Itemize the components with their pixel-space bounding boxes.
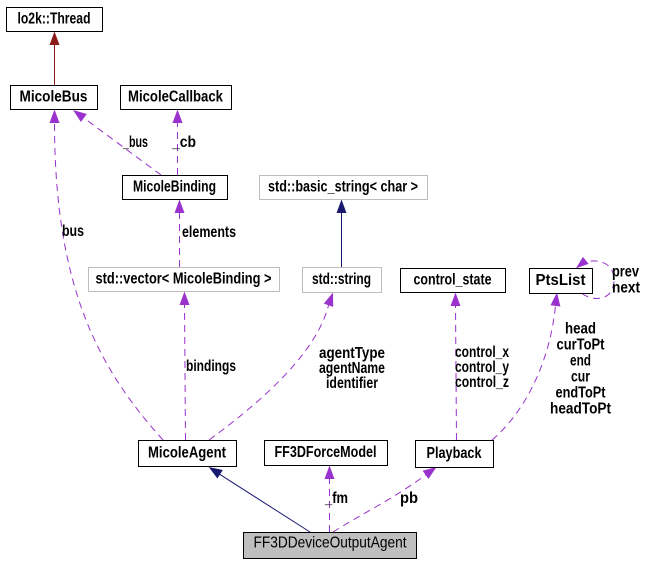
svg-text:std::string: std::string [312, 271, 371, 288]
inheritance edge MicoleBus to lo2k::Thread (protected, solid dark red) [50, 32, 60, 86]
svg-text:headToPt: headToPt [550, 401, 611, 418]
svg-text:_bus: _bus [122, 134, 148, 151]
svg-text:end: end [570, 353, 591, 370]
svg-text:FF3DForceModel: FF3DForceModel [275, 444, 377, 461]
usage edge pb : FF3DDeviceOutputAgent to Playback (dashed purple curve) [333, 467, 437, 532]
svg-text:_fm: _fm [324, 490, 348, 507]
class node PtsList [530, 269, 593, 294]
svg-text:prev: prev [612, 264, 639, 281]
class node control_state [401, 269, 506, 293]
svg-text:MicoleAgent: MicoleAgent [148, 445, 226, 462]
usage edge _fm : FF3DDeviceOutputAgent to FF3DForceModel (dashed purple) [324, 466, 348, 533]
svg-text:std::vector< MicoleBinding >: std::vector< MicoleBinding > [96, 271, 272, 288]
class node MicoleAgent [139, 441, 237, 467]
class node std::vector< MicoleBinding > [89, 268, 280, 292]
svg-text:elements: elements [182, 224, 236, 241]
usage edge _bus : MicoleBinding to MicoleBus (dashed purple) [73, 110, 161, 175]
svg-text:std::basic_string< char >: std::basic_string< char > [268, 179, 418, 196]
svg-text:MicoleBus: MicoleBus [20, 89, 88, 106]
class node std::string [303, 268, 382, 293]
usage edge agentType/agentName/identifier : MicoleAgent to std::string (dashed purple curve) [209, 293, 385, 441]
svg-text:bus: bus [62, 223, 84, 240]
inheritance edge std::string to std::basic_string< char > (public, solid dark blue) [337, 200, 347, 268]
usage edge head/curToPt/end/cur/endToPt/headToPt : Playback to PtsList (dashed purple curve) [492, 293, 611, 441]
svg-text:lo2k::Thread: lo2k::Thread [18, 11, 91, 28]
class node FF3DForceModel [265, 441, 388, 466]
svg-text:head: head [565, 321, 596, 338]
svg-text:endToPt: endToPt [556, 385, 606, 402]
svg-text:MicoleCallback: MicoleCallback [128, 89, 223, 106]
svg-text:identifier: identifier [326, 375, 378, 392]
class node MicoleCallback [121, 86, 232, 110]
class node FF3DDeviceOutputAgent (central, grey filled) [244, 533, 417, 559]
svg-text:Playback: Playback [427, 445, 482, 462]
class node MicoleBinding [123, 176, 228, 200]
svg-text:FF3DDeviceOutputAgent: FF3DDeviceOutputAgent [254, 535, 407, 552]
usage edge bindings : MicoleAgent to std::vector (dashed purple) [180, 292, 237, 441]
usage edge bus : MicoleAgent to MicoleBus (dashed purple curve) [50, 110, 164, 441]
inheritance edge FF3DDeviceOutputAgent to MicoleAgent (public, solid dark blue) [209, 467, 310, 532]
class node std::basic_string< char > [260, 176, 428, 200]
usage edge control_x/control_y/control_z : Playback to control_state (dashed purple) [451, 293, 510, 441]
self usage edge prev/next : PtsList to PtsList (dashed purple loop) [576, 257, 640, 299]
usage edge _cb : MicoleBinding to MicoleCallback (dashed purple) [171, 110, 196, 176]
svg-text:_cb: _cb [171, 134, 196, 151]
svg-text:bindings: bindings [186, 358, 236, 375]
svg-text:pb: pb [400, 490, 418, 507]
class node MicoleBus [11, 86, 98, 110]
svg-text:MicoleBinding: MicoleBinding [133, 179, 216, 196]
svg-text:curToPt: curToPt [557, 337, 605, 354]
svg-text:PtsList: PtsList [536, 272, 586, 289]
class node Playback [416, 441, 494, 468]
class node lo2k::Thread [7, 8, 103, 32]
usage edge elements : std::vector to MicoleBinding (dashed purple) [175, 200, 237, 268]
svg-text:control_z: control_z [455, 374, 509, 391]
svg-text:next: next [612, 280, 640, 297]
svg-text:control_state: control_state [414, 272, 492, 289]
svg-text:cur: cur [571, 369, 590, 386]
